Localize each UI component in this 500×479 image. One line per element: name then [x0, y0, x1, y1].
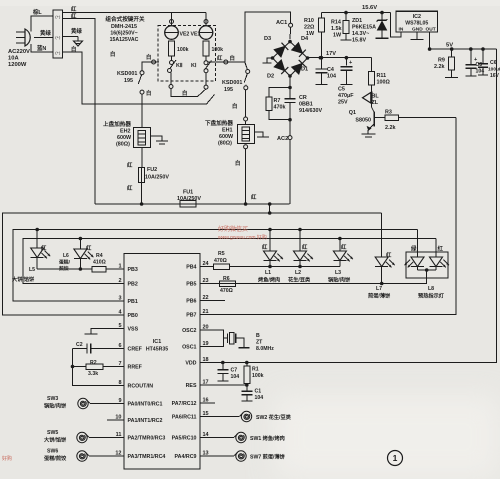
- svg-text:1200W: 1200W: [8, 62, 27, 68]
- label 黄绿 right: [71, 27, 82, 35]
- svg-text:2.2k: 2.2k: [434, 64, 445, 70]
- label R11 100ohm: [377, 73, 391, 86]
- label R14 1.5k 1W: [331, 20, 342, 39]
- svg-text:SW1 烤鱼/烤肉: SW1 烤鱼/烤肉: [250, 434, 285, 442]
- svg-text:(+): (+): [55, 50, 61, 55]
- resistor R5 470ohm: [200, 264, 340, 270]
- svg-text:好购: 好购: [2, 455, 12, 462]
- svg-text:C5: C5: [338, 87, 345, 93]
- label VE2: [180, 32, 190, 38]
- resistor R3 2.2k: [374, 115, 456, 121]
- fuse FU1: [180, 201, 196, 208]
- svg-text:RCOUT/IN: RCOUT/IN: [128, 384, 154, 390]
- LED L8 green: [405, 230, 425, 271]
- svg-text:SW3: SW3: [47, 396, 58, 402]
- IC1 pin 24 PB4: [186, 261, 209, 271]
- svg-text:黄绿: 黄绿: [40, 29, 51, 37]
- svg-text:470μF: 470μF: [338, 93, 354, 99]
- svg-text:D1: D1: [301, 67, 308, 73]
- svg-text:17V: 17V: [326, 51, 336, 57]
- wire pin17 to R1: [200, 384, 247, 386]
- neon lamp VE1: [199, 13, 213, 40]
- label AC1: [276, 20, 287, 26]
- svg-text:红: 红: [302, 243, 308, 251]
- IC1 pin 8 RCOUT/IN: [118, 380, 153, 390]
- svg-text:SW5: SW5: [47, 430, 58, 436]
- wire K1 top to AC feed: [208, 60, 245, 64]
- watermark red text: [2, 225, 267, 462]
- label 红 L8: [438, 245, 444, 253]
- svg-text:红: 红: [262, 243, 268, 251]
- IC1 pin 13 PA4/RC9: [175, 451, 209, 461]
- svg-text:组合式按键开关: 组合式按键开关: [105, 15, 145, 23]
- label B ZT 8.0MHz: [256, 333, 274, 352]
- label 红 L3: [341, 243, 347, 251]
- svg-text:OSC1: OSC1: [182, 345, 196, 351]
- LED L7: [375, 213, 395, 285]
- IC1 pin 2 PB2: [118, 278, 137, 288]
- label D3: [264, 36, 271, 42]
- svg-text:KSD001: KSD001: [222, 80, 242, 86]
- pin 22 stub: [200, 300, 225, 302]
- key switch SW2: [240, 411, 252, 421]
- IC1 pin 20 OSC2: [182, 325, 209, 335]
- svg-text:PB5: PB5: [186, 282, 196, 288]
- IC1 pin 18 VDD: [185, 357, 208, 367]
- svg-text:VDD: VDD: [185, 361, 196, 367]
- microcontroller IC1 HT45R35 box: [124, 254, 200, 470]
- wire plug middle (yellow-green) to terminal block: [34, 37, 53, 39]
- IC1 pin 10 PA1/INT1/RC2: [115, 415, 162, 425]
- pin 16 stub: [200, 402, 215, 404]
- wire red live drop: [63, 18, 95, 204]
- capacitor C2: [73, 344, 125, 354]
- svg-text:R6: R6: [223, 276, 230, 282]
- svg-text:KⅠ: KⅠ: [191, 62, 197, 69]
- svg-text:8.0MHz: 8.0MHz: [256, 346, 274, 352]
- label L8 预热指示灯: [418, 286, 445, 300]
- bus PB1 loop: [13, 228, 418, 301]
- svg-text:RREF: RREF: [128, 365, 143, 371]
- label 白 above EH1: [232, 102, 237, 110]
- svg-text:PB7: PB7: [186, 313, 196, 319]
- svg-text:红: 红: [438, 245, 444, 253]
- svg-text:白: 白: [230, 54, 235, 62]
- svg-text:104: 104: [327, 74, 336, 80]
- svg-text:410Ω: 410Ω: [93, 260, 106, 266]
- svg-text:ZL: ZL: [372, 100, 379, 106]
- wire R3 down to PB7 row: [200, 118, 456, 315]
- svg-text:600W: 600W: [117, 135, 132, 141]
- label 绿 L8: [411, 245, 417, 253]
- svg-text:P6KE15A: P6KE15A: [352, 25, 376, 31]
- svg-text:BL: BL: [372, 94, 380, 100]
- svg-text:16(6)250V~: 16(6)250V~: [110, 31, 137, 37]
- label 红 L7: [386, 251, 392, 259]
- resistor R14 1.5k 1W: [341, 11, 352, 40]
- svg-text:100Ω: 100Ω: [377, 80, 391, 86]
- key switch SW5: [77, 432, 89, 442]
- svg-text:蛋糕/煎饺: 蛋糕/煎饺: [43, 454, 67, 462]
- IC1 pin 11 PA2/TMR0/RC3: [116, 432, 166, 442]
- svg-text:红: 红: [251, 193, 257, 201]
- IC2 GND pin ground: [411, 32, 424, 40]
- label 5V: [446, 43, 453, 49]
- svg-text:10A/250V: 10A/250V: [145, 175, 169, 181]
- svg-text:1W: 1W: [333, 33, 342, 39]
- svg-text:KⅡ: KⅡ: [176, 62, 183, 69]
- svg-text:L3: L3: [335, 270, 341, 276]
- svg-text:L7: L7: [376, 286, 382, 292]
- svg-text:IC2: IC2: [413, 14, 421, 20]
- wire SW6 to pin12: [89, 455, 124, 457]
- label SW1 烤鱼/烤肉: [250, 434, 285, 442]
- IC1 pin 23 PB5: [186, 278, 208, 288]
- svg-text:红: 红: [71, 5, 77, 13]
- svg-text:L2: L2: [295, 270, 301, 276]
- svg-text:1: 1: [393, 453, 398, 463]
- bus PB0 outer loop: [3, 211, 382, 315]
- transistor Q1 S8050: [362, 104, 376, 137]
- svg-text:100k: 100k: [177, 47, 189, 53]
- svg-text:14.3V~: 14.3V~: [352, 31, 369, 37]
- neon lamp VE2: [165, 13, 179, 40]
- resistor R1 100k: [244, 363, 250, 387]
- IC1 pin 15 PA6/RC11: [172, 411, 209, 421]
- bus PB2 loop: [23, 237, 436, 284]
- svg-text:EH2: EH2: [120, 129, 131, 135]
- rail 15.6V: [322, 12, 391, 14]
- label K1: [191, 62, 197, 69]
- label 红 below FU2: [127, 184, 133, 192]
- label SW6 蛋糕/煎饺: [43, 449, 67, 463]
- wire K1 below contact: [204, 73, 208, 89]
- AC plug P1: [16, 29, 30, 46]
- IC1 pin 3 PB1: [118, 296, 137, 306]
- svg-text:R5: R5: [218, 251, 225, 257]
- label VE1: [191, 32, 201, 38]
- svg-text:PB6: PB6: [186, 299, 196, 305]
- label BL ZL: [372, 94, 380, 107]
- label C7 104: [231, 368, 240, 381]
- resistor R7 470k: [266, 88, 292, 122]
- label 红 near K1 top: [217, 54, 223, 62]
- wire pin14 to SW1: [200, 437, 234, 439]
- label 下盘加热器 EH1 600W 80ohm: [205, 119, 234, 147]
- svg-text:5V: 5V: [446, 43, 453, 49]
- label AC2: [277, 136, 288, 142]
- LED L8 red: [430, 239, 450, 271]
- svg-text:914/630V: 914/630V: [299, 108, 322, 114]
- switch K2 contacts: [168, 56, 177, 73]
- label 红 L6: [86, 244, 92, 252]
- capacitor C7 104: [217, 363, 228, 382]
- wire pin15 to SW2: [200, 416, 240, 418]
- svg-text:SW6: SW6: [47, 449, 58, 455]
- IC1 pin 5 VSS: [118, 323, 138, 333]
- label R4 410ohm: [93, 253, 106, 266]
- svg-text:23: 23: [203, 278, 209, 284]
- L8 common cathode wire: [200, 268, 436, 283]
- switch K1 contacts: [204, 56, 212, 73]
- label 白 inside loop: [182, 89, 187, 97]
- svg-text:AC220V: AC220V: [8, 49, 30, 55]
- label 白 below KSD left: [146, 89, 151, 97]
- svg-text:锅贴/肉饼: 锅贴/肉饼: [44, 402, 67, 410]
- label C6 100uF 16V: [488, 60, 500, 79]
- svg-text:WS78L05: WS78L05: [405, 21, 428, 27]
- svg-text:AC1: AC1: [276, 20, 287, 26]
- label C5 470uF 25V: [338, 87, 354, 106]
- regulator IC2 WS78L05: [391, 11, 438, 37]
- svg-text:SW7 煎蛋/薄饼: SW7 煎蛋/薄饼: [250, 453, 286, 461]
- svg-text:104: 104: [231, 374, 240, 380]
- label L2 花生/豆类: [288, 270, 311, 284]
- svg-text:600W: 600W: [219, 134, 234, 140]
- key switch SW3: [78, 398, 90, 408]
- terminal block XP: [53, 10, 63, 58]
- buzzer BL ZL: [363, 92, 372, 105]
- svg-text:GND: GND: [412, 27, 423, 33]
- svg-text:烤鱼/烤肉: 烤鱼/烤肉: [258, 276, 280, 284]
- svg-text:PA2/TMR0/RC3: PA2/TMR0/RC3: [128, 436, 166, 442]
- svg-text:ZD1: ZD1: [352, 18, 362, 24]
- resistor R9 2.2k: [445, 49, 458, 77]
- bridge vertex dots: [271, 56, 310, 78]
- label C1 104: [255, 389, 264, 402]
- svg-text:OSC2: OSC2: [182, 328, 196, 334]
- svg-text:红: 红: [86, 244, 92, 252]
- label 上盘加热器 EH2 600W 80ohm: [103, 120, 132, 148]
- svg-text:L6: L6: [63, 253, 69, 259]
- fuse FU2: [139, 168, 145, 183]
- svg-text:下盘加热器: 下盘加热器: [205, 119, 233, 127]
- zener ZD1 P6KE15A: [376, 11, 389, 39]
- diode D3: [273, 42, 291, 58]
- label 红 L2: [302, 243, 308, 251]
- svg-text:红: 红: [341, 243, 347, 251]
- svg-text:L5: L5: [29, 267, 35, 273]
- svg-text:CR: CR: [299, 95, 307, 101]
- label 15.6V: [362, 5, 377, 11]
- wire K2 lower to K1 lower: [169, 73, 206, 97]
- VSS ground pin5: [85, 329, 125, 335]
- svg-text:10A/250V: 10A/250V: [177, 196, 201, 202]
- svg-text:195: 195: [224, 87, 233, 93]
- svg-text:黄绿: 黄绿: [71, 27, 82, 35]
- IC1 pin 6 CREF: [118, 343, 142, 353]
- label L7 煎蛋/薄饼: [368, 286, 391, 300]
- svg-text:CREF: CREF: [128, 347, 143, 353]
- thermostat KSD001 right: [244, 62, 250, 117]
- svg-text:1.5k: 1.5k: [331, 26, 342, 32]
- wire EH2 to FU2: [141, 148, 143, 168]
- svg-text:PA4/RC9: PA4/RC9: [175, 454, 197, 460]
- svg-text:D3: D3: [264, 36, 271, 42]
- label KSD001 195 left: [117, 71, 137, 84]
- svg-text:白: 白: [146, 53, 151, 61]
- label 红 L1: [262, 243, 268, 251]
- resistor 100k right: [203, 41, 223, 56]
- thermostat KSD001 left: [138, 60, 159, 128]
- svg-text:锅贴/肉饼: 锅贴/肉饼: [328, 276, 351, 284]
- LED L5: [31, 230, 51, 270]
- label 17V: [326, 51, 336, 57]
- label L3 锅贴/肉饼: [328, 270, 351, 284]
- wire FU2 to rail: [140, 183, 144, 206]
- VDD row wires: [221, 361, 249, 365]
- page number circled 1: [388, 451, 403, 466]
- label R2 3.3k: [88, 360, 98, 377]
- svg-text:470Ω: 470Ω: [220, 288, 233, 294]
- svg-text:R4: R4: [96, 253, 103, 259]
- label 白 near block: [110, 50, 115, 58]
- resistor R10 22ohm 1W: [319, 13, 325, 58]
- label CR 0BB1 914/630V: [299, 95, 322, 114]
- svg-text:R10: R10: [304, 18, 314, 24]
- wire SW3 to pin9: [90, 403, 124, 405]
- svg-text:白: 白: [235, 159, 240, 167]
- svg-text:(80Ω): (80Ω): [116, 142, 130, 148]
- svg-text:IN: IN: [399, 27, 404, 33]
- EH1 case ground: [255, 132, 270, 137]
- label 白 below EH1: [235, 159, 240, 167]
- svg-text:DMH-2415: DMH-2415: [111, 24, 137, 30]
- wire SW5 to pin11: [89, 437, 124, 439]
- label D2: [267, 74, 274, 80]
- svg-text:470k: 470k: [274, 105, 286, 111]
- svg-text:红: 红: [217, 54, 223, 62]
- wire 5V down to VDD row: [200, 49, 497, 362]
- svg-text:PB4: PB4: [186, 265, 196, 271]
- svg-text:21: 21: [203, 309, 209, 315]
- svg-text:煎蛋/薄饼: 煎蛋/薄饼: [368, 292, 391, 300]
- svg-text:PB0: PB0: [128, 313, 138, 319]
- bridge rectifier node AC1: [288, 23, 292, 43]
- label R3 2.2k: [385, 110, 396, 132]
- label L1 烤鱼/烤肉: [258, 270, 280, 284]
- label R1 100k: [252, 367, 264, 380]
- svg-text:HT45R35: HT45R35: [146, 347, 168, 353]
- svg-text:AC2: AC2: [277, 136, 288, 142]
- svg-text:VE2: VE2: [180, 32, 190, 38]
- IC2 OUT to 5V rail: [429, 32, 431, 49]
- label 棕L: [33, 8, 42, 16]
- svg-text:104: 104: [255, 395, 264, 401]
- label 红 L5: [41, 244, 47, 252]
- svg-text:红: 红: [127, 184, 133, 192]
- svg-text:RES: RES: [186, 383, 197, 389]
- IC1 pin 22 PB6: [186, 295, 208, 305]
- svg-text:3: 3: [118, 296, 121, 302]
- label R7 470k: [274, 98, 286, 111]
- label 黄绿 left: [40, 29, 51, 37]
- label switch 组合式按键开关 DMH-2415: [105, 15, 145, 43]
- svg-text:白: 白: [232, 102, 237, 110]
- wire EH1 to rail: [244, 145, 248, 206]
- wire plug L (brown) to terminal block: [31, 16, 53, 32]
- svg-text:S8050: S8050: [355, 118, 371, 124]
- stub rail to bus: [268, 202, 272, 213]
- svg-text:R1: R1: [252, 367, 259, 373]
- IC1 pin 9 PA0/INT0/RC1: [118, 398, 162, 408]
- svg-text:红: 红: [386, 251, 392, 259]
- svg-text:22Ω: 22Ω: [304, 25, 315, 31]
- capacitor C6 100uF 16V: [474, 49, 488, 75]
- svg-text:15A125VAC: 15A125VAC: [110, 37, 139, 43]
- resistor 100k left: [169, 41, 189, 56]
- IC1 pin 14 PA5/RC10: [172, 432, 210, 442]
- resistor R4 410ohm: [37, 266, 124, 272]
- label FU2 10A/250V: [145, 167, 169, 181]
- svg-text:R3: R3: [385, 110, 392, 116]
- label AC220V 10A 1200W: [8, 49, 30, 68]
- svg-text:16V: 16V: [490, 73, 500, 79]
- svg-text:15.6V: 15.6V: [362, 5, 377, 11]
- node AC2: [288, 76, 292, 204]
- key switch SW6: [77, 451, 89, 461]
- svg-text:(+): (+): [55, 35, 61, 40]
- crystal B ZT 8.0MHz: [200, 330, 249, 348]
- svg-text:C1: C1: [255, 389, 262, 395]
- svg-text:PB1: PB1: [128, 299, 138, 305]
- label 红 second output: [71, 12, 77, 20]
- wire yellow-green to earth: [63, 36, 79, 38]
- LED L3: [333, 239, 353, 267]
- svg-text:www.gouwu.com 好购: www.gouwu.com 好购: [218, 234, 267, 241]
- svg-text:3.3k: 3.3k: [88, 371, 98, 377]
- svg-text:棕L: 棕L: [33, 8, 42, 16]
- label D4: [301, 36, 309, 42]
- wire C2 R2 to pin8: [73, 349, 125, 386]
- svg-text:24: 24: [203, 261, 210, 267]
- preheat indicator box L8: [406, 252, 448, 278]
- svg-text:SW2 花生/豆类: SW2 花生/豆类: [256, 413, 292, 421]
- svg-text:470Ω: 470Ω: [214, 258, 227, 264]
- label R5 470ohm: [214, 251, 227, 264]
- svg-text:2: 2: [118, 278, 121, 284]
- svg-text:白: 白: [110, 50, 115, 58]
- capacitor C5 470uF 25V: [340, 58, 353, 85]
- rail 5V: [428, 47, 497, 51]
- IC1 pin 21 PB7: [186, 309, 208, 319]
- label K2: [176, 62, 183, 69]
- svg-text:L8: L8: [428, 286, 434, 292]
- label 白 output: [71, 45, 76, 53]
- svg-text:EH1: EH1: [222, 128, 233, 134]
- svg-text:1: 1: [118, 264, 121, 270]
- svg-text:R11: R11: [377, 73, 387, 79]
- svg-text:L1: L1: [265, 270, 271, 276]
- IC1 pin 19 OSC1: [182, 341, 209, 351]
- svg-text:PA3/TMR1/RC4: PA3/TMR1/RC4: [128, 454, 166, 460]
- svg-text:R2: R2: [90, 360, 97, 366]
- label R10 22ohm 1W: [304, 18, 315, 37]
- power rail bottom: [95, 203, 290, 205]
- pin 10 stub: [107, 419, 124, 421]
- svg-text:绿: 绿: [411, 245, 417, 253]
- svg-text:B: B: [256, 333, 260, 339]
- label 白 above KSD1 wire: [146, 53, 151, 61]
- label 红 top output: [71, 5, 77, 13]
- label C2: [76, 342, 83, 348]
- label SW7 煎蛋/薄饼: [250, 453, 286, 461]
- EH2 case ground: [151, 136, 169, 144]
- svg-text:(+): (+): [55, 14, 61, 19]
- svg-text:PB3: PB3: [128, 267, 138, 273]
- svg-text:1W: 1W: [306, 31, 315, 37]
- label FU1 10A/250V: [177, 190, 201, 203]
